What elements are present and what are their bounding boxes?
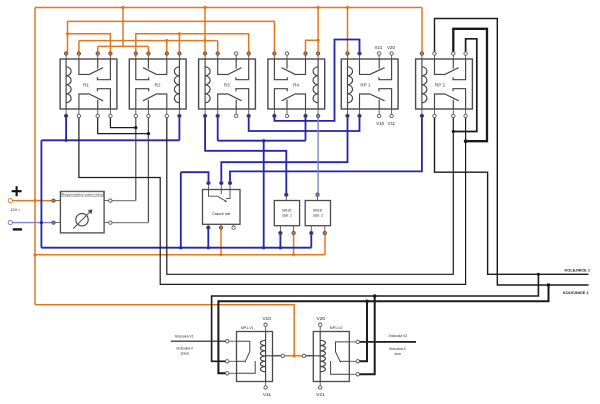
relay R2 top pin 2 — [147, 52, 150, 55]
relay RP 2 top pin 2 stem — [434, 54, 436, 60]
wire stem timer b2 — [220, 229, 222, 254]
relay RP 2 upper contact stem — [452, 59, 454, 69]
wire orange bus y254 — [35, 254, 325, 256]
wire RP2b2 to kolejnice1 — [435, 116, 589, 275]
wire orange left vertical — [34, 8, 36, 305]
MP1-V1 box — [237, 332, 273, 382]
relay RP 1 bottom pin 1 — [346, 114, 349, 117]
MP1-V1 V10 pin — [264, 323, 267, 326]
relay R1 lower contact arm — [89, 94, 104, 101]
relay R4 box — [268, 59, 325, 109]
timer bottom pin1 — [207, 226, 210, 229]
relay R3 bottom pin 3 — [235, 114, 238, 117]
MP1-V1 switch middle wire — [237, 360, 245, 362]
junction top rail x205 — [203, 6, 206, 9]
relay R2 top pin 1 stem — [135, 54, 137, 60]
relay RP 2 lower fixed contact — [453, 89, 466, 109]
junction R2b2 node — [147, 132, 150, 135]
relay R1 top pin 2 stem — [78, 54, 80, 60]
relay R4 coil — [313, 59, 318, 109]
relay R2 bottom pin 3 — [165, 114, 168, 117]
timer top pin1 — [207, 181, 210, 184]
wire R1b2 to RP2b4 long — [79, 116, 466, 285]
relay R4 bottom pin 3 stem — [305, 109, 307, 116]
svg-text:R4: R4 — [293, 83, 299, 88]
relay R1 coil — [66, 59, 71, 109]
relay R3 box — [199, 59, 256, 109]
relay R4 bottom pin 2 stem — [286, 109, 288, 116]
relay R3 top pin 3 stem — [235, 54, 237, 60]
MP1-V2 V21 pin — [319, 386, 322, 389]
relay R4 upper contact common — [296, 59, 306, 74]
svg-text:Srdcovka V1: Srdcovka V1 — [175, 335, 194, 339]
MP1-V2 right pin1 — [356, 340, 359, 343]
wire RP2t2 to kolejnice2 — [435, 19, 589, 286]
terminal -12V — [8, 221, 12, 225]
relay RP 1 upper contact common — [360, 59, 370, 74]
relay R3 upper fixed contact — [236, 59, 249, 80]
relay R3 bottom pin 4 stem — [248, 109, 250, 116]
junction y40 x167 — [165, 39, 168, 42]
relay R3 top pin 1 stem — [204, 54, 206, 60]
svg-text:V11: V11 — [263, 392, 272, 398]
relay RP 2 top pin 4 stem — [465, 54, 467, 60]
relay RP 1 top pin 1 — [346, 52, 349, 55]
pulse source left pin2 — [52, 221, 55, 224]
relay R2 lower contact stem — [147, 100, 149, 109]
svg-text:R1: R1 — [83, 83, 89, 88]
junction y40 x318 — [317, 39, 320, 42]
MP1-V1 switch common — [237, 341, 250, 352]
timer top pin2 — [220, 181, 223, 184]
BN1D 1 bottom stems — [280, 226, 293, 232]
relay R4 lower contact common — [296, 94, 306, 109]
relay R4 upper fixed contact — [274, 59, 287, 80]
terminal +12V — [8, 199, 12, 203]
relay R4 top pin 4 — [316, 52, 319, 55]
wire stem BN1D1 b1 — [279, 235, 281, 248]
junction R2b1 node — [134, 126, 137, 129]
svg-text:R2: R2 — [155, 83, 161, 88]
relay R2 top pin 4 — [178, 52, 181, 55]
MP1-V2 switch arm — [336, 352, 341, 363]
relay RP 1 lower fixed contact — [379, 89, 392, 109]
relay R2 top pin 1 — [134, 52, 137, 55]
relay R1 top pin 1 — [64, 52, 67, 55]
wire MP1-V2 tap stub — [306, 355, 314, 357]
BN1D 2 box — [305, 201, 330, 226]
wire R2b1 vertical — [135, 116, 137, 201]
relay RP 1 top pin 1 stem — [347, 54, 349, 60]
wire blue bus1 y140 — [41, 139, 179, 141]
relay R4 lower fixed contact — [274, 89, 287, 109]
junction timer t1 blue — [207, 182, 210, 185]
relay R1 upper contact arm — [89, 68, 104, 75]
relay RP 2 bottom pin 3 — [452, 114, 455, 117]
relay R3 top pin 2 — [216, 52, 219, 55]
relay RP 1 top pin 3 stem — [378, 54, 380, 60]
wire stem R1 b1 — [65, 116, 67, 141]
relay RP 1 upper contact arm — [369, 68, 385, 75]
wire branch R4 pin3 — [306, 40, 319, 53]
label plus — [12, 186, 22, 196]
junction y33 R2p4 — [178, 32, 181, 35]
svg-text:V21: V21 — [374, 45, 382, 50]
relay RP 2 upper contact common — [435, 59, 445, 74]
relay R3 upper contact common — [218, 59, 228, 74]
relay R1 top pin 3 — [96, 52, 99, 55]
wire stem BN1D2 b1 — [310, 235, 312, 248]
relay RP 2 bottom pin 1 — [420, 114, 423, 117]
relay R3 top pin 3 — [235, 52, 238, 55]
junction RP2b3 link — [452, 130, 455, 133]
MP1-V1 switch arm — [245, 352, 250, 363]
relay RP 2 lower contact arm — [444, 94, 459, 101]
svg-text:BN1D: BN1D — [313, 208, 323, 212]
timer bottom pin3 — [232, 226, 235, 229]
BN1D 2 top stem — [317, 196, 319, 200]
BN1D 1 top pin — [285, 193, 288, 196]
relay RP 1 bottom pin 4 — [390, 114, 393, 117]
relay R4 top pin 3 stem — [305, 54, 307, 60]
wire -12V to pulse source t2 — [12, 222, 54, 224]
svg-text:V10: V10 — [376, 121, 384, 126]
relay R3 bottom pin 1 stem — [204, 109, 206, 116]
relay R1 top pin 4 stem — [109, 54, 111, 60]
relay R4 top pin 2 — [285, 52, 288, 55]
relay R2 lower fixed contact — [136, 89, 149, 109]
relay R3 lower fixed contact — [236, 89, 249, 109]
wire orange top rail — [35, 7, 422, 9]
svg-text:KOLEJNICE 1: KOLEJNICE 1 — [564, 267, 590, 272]
relay R1 upper contact common — [79, 59, 89, 74]
wire orange rail2 y21 — [68, 21, 275, 53]
relay R2 upper contact stem — [147, 59, 149, 69]
junction RP2b4 thick — [464, 139, 468, 143]
svg-text:MP1-V1: MP1-V1 — [241, 326, 254, 330]
relay RP 2 coil — [422, 59, 427, 109]
relay R2 bottom pin 4 — [178, 114, 181, 117]
wire blue left vertical — [40, 140, 42, 247]
svg-text:Srdcovka X: Srdcovka X — [176, 347, 194, 351]
relay RP 2 bottom pin 4 stem — [465, 109, 467, 116]
junction top rail x348 — [346, 6, 349, 9]
wire drop to R3 pin1 — [204, 8, 206, 54]
MP1-V1 left pin1 — [226, 340, 229, 343]
relay R3 bottom pin 1 — [203, 114, 206, 117]
relay RP 2 top pin 2 — [433, 52, 436, 55]
junction blue bus1 R1b1 — [65, 139, 68, 142]
wire R3b4 to RP1b2 y131 — [249, 116, 360, 131]
MP1-V1 winding — [260, 332, 265, 382]
relay R1 bottom pin 2 stem — [78, 109, 80, 116]
MP1-V1 switch throw bracket — [237, 361, 256, 373]
wire stem BN1D2 b2 — [324, 235, 326, 255]
relay R1 top pin 1 stem — [65, 54, 67, 60]
wire y40 R1p2-R3p2 — [79, 40, 218, 42]
relay RP 2 bottom pin 3 stem — [452, 109, 454, 116]
relay R1 bottom pin 1 — [64, 114, 67, 117]
svg-text:V11: V11 — [388, 121, 396, 126]
MP1-V2 tap pin — [302, 354, 305, 357]
relay RP 1 lower contact arm — [369, 94, 385, 101]
MP1-V2 right stems — [349, 342, 356, 374]
junction k1line x374 — [373, 294, 377, 298]
relay R1 upper contact stem — [97, 59, 99, 69]
wire stem R1 pin2 — [78, 41, 80, 54]
wire bus2 y140 R3b2-R4b3 — [218, 140, 306, 142]
relay RP 1 lower contact stem — [378, 100, 380, 109]
wire drop to RP1 pin1 — [347, 8, 349, 54]
relay RP 2 top pin 3 — [452, 52, 455, 55]
junction bus BN1D1 b2 — [292, 253, 295, 256]
relay RP 1 upper fixed contact — [379, 59, 392, 80]
svg-text:levá: levá — [395, 352, 401, 356]
relay R4 bottom pin 3 — [304, 114, 307, 117]
svg-text:Srdcovka X: Srdcovka X — [389, 347, 407, 351]
relay RP 1 box — [341, 59, 398, 109]
relay R3 bottom pin 2 — [216, 114, 219, 117]
MP1-V1 left pin2 — [226, 360, 229, 363]
timer top pin3 — [228, 181, 231, 184]
wire RP2t3 thick link — [453, 29, 487, 141]
svg-text:V20: V20 — [317, 316, 326, 322]
relay R3 lower contact arm — [227, 94, 241, 101]
relay R1 box — [60, 59, 117, 109]
wire stem R3 b2 — [217, 116, 219, 141]
MP1-V1 tap pin — [281, 354, 284, 357]
MP1-V1 V11 pin — [264, 386, 267, 389]
relay R1 lower fixed contact — [97, 89, 110, 109]
wire stem BN1D1 b2 — [293, 235, 295, 255]
svg-text:Regulovatelný pulsní zdroj: Regulovatelný pulsní zdroj — [62, 193, 103, 197]
wire stem R3 pin2 — [217, 41, 219, 54]
relay RP 1 coil — [348, 59, 353, 109]
relay R4 bottom pin 1 — [273, 114, 276, 117]
relay R3 top pin 1 — [203, 52, 206, 55]
wire split y46 R1p3-R2p2 — [98, 45, 149, 47]
relay RP 1 bottom pin 2 stem — [359, 109, 361, 116]
timer switch throw — [226, 190, 230, 199]
relay R1 bottom pin 2 — [77, 114, 80, 117]
wire R1b4 to R2b1 node — [110, 116, 135, 128]
relay R4 top pin 3 — [304, 52, 307, 55]
relay R4 bottom pin 1 stem — [273, 109, 275, 116]
BN1D 2 bottom pin1 — [310, 231, 313, 234]
wire rail3 y33 R2p1-R3p4 — [136, 34, 249, 54]
svg-text:zást. 2: zást. 2 — [313, 213, 323, 217]
relay R2 bottom pin 4 stem — [178, 109, 180, 116]
relay RP 1 top pin 4 stem — [391, 54, 393, 60]
wire R4b4 to BN1D2 top — [317, 116, 319, 193]
relay R2 box — [129, 59, 186, 109]
relay R3 bottom pin 3 stem — [235, 109, 237, 116]
MP1-V2 switch middle wire — [341, 360, 350, 362]
relay RP 2 bottom pin 4 — [464, 114, 467, 117]
MP1-V2 V21 stem — [319, 382, 321, 386]
MP1-V1 V10 stem — [265, 326, 267, 331]
wire pulse t2 link — [110, 222, 148, 224]
relay R3 top pin 4 — [247, 52, 250, 55]
BN1D 1 bottom pin1 — [279, 231, 282, 234]
relay R2 bottom pin 2 stem — [147, 109, 149, 116]
junction orange at +12V — [33, 199, 36, 202]
wire R1b3 to R2b2 node — [98, 116, 149, 134]
relay R4 top pin 1 stem — [273, 54, 275, 60]
relay R2 upper contact common — [157, 59, 167, 74]
relay R4 bottom pin 4 stem — [317, 109, 319, 116]
BN1D 1 top stem — [285, 196, 287, 200]
relay R1 bottom pin 3 stem — [97, 109, 99, 116]
wire stem R4 b3 — [305, 116, 307, 141]
relay R4 top pin 1 — [273, 52, 276, 55]
relay R2 bottom pin 1 — [134, 114, 137, 117]
svg-text:Srdcovka V2: Srdcovka V2 — [389, 334, 408, 338]
relay RP 1 bottom pin 3 stem — [378, 109, 380, 116]
wire stem R2 pin4 — [178, 34, 180, 54]
timer switch arm — [217, 196, 225, 201]
junction blue bus2 drop — [262, 139, 265, 142]
relay RP 2 top pin 1 — [420, 52, 423, 55]
wire stem timer b1 — [207, 229, 209, 247]
wire kolejnice2 branch — [218, 285, 548, 373]
junction y40 x205 — [203, 39, 206, 42]
pulse source left pin1 — [52, 199, 55, 202]
junction bus3 BN1D1 b1 — [279, 246, 282, 249]
timer bottom pin2 — [219, 226, 222, 229]
relay RP 1 bottom pin 1 stem — [347, 109, 349, 116]
wire drop to RP2 pin1 — [421, 8, 423, 54]
relay R1 bottom pin 4 stem — [109, 109, 111, 116]
timer relay box — [203, 190, 241, 225]
MP1-V2 box — [313, 332, 349, 382]
svg-text:KOLEJNICE 2: KOLEJNICE 2 — [563, 290, 589, 295]
relay R4 top pin 2 stem — [286, 54, 288, 60]
wire timer t3 to RP2 b1 — [230, 116, 422, 182]
BN1D 1 bottom pin2 — [292, 231, 295, 234]
relay RP 1 bottom pin 3 — [378, 114, 381, 117]
relay RP 2 top pin 4 — [464, 52, 467, 55]
svg-text:Časové relé: Časové relé — [212, 211, 230, 216]
wire drop to R4 pin4 — [317, 8, 319, 54]
relay R1 lower contact stem — [97, 100, 99, 109]
wire srdcovka V1 — [171, 340, 226, 342]
relay R1 lower contact common — [79, 94, 89, 109]
MP1-V2 right pin2 — [356, 360, 359, 363]
svg-text:pravá: pravá — [181, 352, 189, 356]
relay R3 bottom pin 2 stem — [217, 109, 219, 116]
wire drop bus2 to bus3 — [263, 141, 265, 248]
svg-text:V20: V20 — [387, 45, 395, 50]
relay R3 top pin 2 stem — [217, 54, 219, 60]
pulse source box — [60, 191, 104, 233]
symbol minus — [13, 228, 22, 230]
timer switch arrowhead — [224, 200, 227, 203]
relay R2 top pin 2 stem — [147, 54, 149, 60]
relay R3 upper contact stem — [235, 59, 237, 69]
relay RP 2 bottom pin 1 stem — [421, 109, 423, 116]
svg-text:V21: V21 — [316, 392, 325, 398]
wire R2b3 to RP2b3 long — [167, 116, 454, 275]
wire drop node x123 — [122, 8, 124, 47]
relay R2 upper fixed contact — [136, 59, 149, 80]
relay RP 1 lower contact common — [360, 94, 370, 109]
pulse source symbol circle — [76, 214, 88, 226]
relay R2 coil — [174, 59, 179, 109]
relay R1 top pin 2 — [77, 52, 80, 55]
MP1-V1 left pin3 — [226, 372, 229, 375]
pulse source right pin2 — [109, 221, 112, 224]
relay R2 top pin 3 — [165, 52, 168, 55]
relay R1 top pin 3 stem — [97, 54, 99, 60]
pulse source left stubs — [55, 201, 108, 223]
junction k2line x367 — [365, 300, 369, 304]
wire k2line to MP1-V2 middle — [359, 301, 367, 361]
relay RP 2 box — [416, 59, 473, 109]
MP1-V2 tap wire — [313, 355, 320, 357]
wire R4b1 to RP1 pin2 — [274, 40, 359, 121]
BN1D 1 box — [274, 201, 299, 226]
junction top rail x123 — [121, 6, 124, 9]
wire R1 p1-p4 join — [68, 34, 111, 54]
junction orange bus start — [33, 253, 36, 256]
wire +12V to pulse source t1 — [12, 200, 54, 202]
wire orange feed to frog taps — [35, 305, 294, 356]
relay R3 upper contact arm — [227, 68, 241, 75]
wire MP1-V1 tap stub — [273, 355, 282, 357]
wire stem R2 pin2 — [147, 46, 149, 53]
junction y33 R1 join — [66, 32, 69, 35]
relay R4 bottom pin 4 — [316, 114, 319, 117]
relay R2 bottom pin 3 stem — [166, 109, 168, 116]
pulse source right pin1 — [109, 199, 112, 202]
relay RP 1 upper contact stem — [378, 59, 380, 69]
timer bottom stems — [208, 224, 233, 226]
junction bus3 timer b1 — [207, 246, 210, 249]
junction top rail x318 — [317, 6, 320, 9]
wire kolejnice1 branch — [212, 274, 539, 361]
svg-text:RP 2: RP 2 — [435, 83, 446, 88]
relay R3 coil — [205, 59, 210, 109]
MP1-V2 V20 pin — [319, 323, 322, 326]
relay RP 2 top pin 1 stem — [421, 54, 423, 60]
junction bus3 x263 — [262, 246, 265, 249]
svg-text:V10: V10 — [262, 316, 271, 322]
svg-text:RP 1: RP 1 — [360, 83, 371, 88]
BN1D 2 top pin — [316, 193, 319, 196]
relay RP 1 bottom pin 2 — [358, 114, 361, 117]
relay R1 bottom pin 4 — [109, 114, 112, 117]
junction blue minus — [40, 221, 43, 224]
MP1-V2 right pin3 — [356, 373, 359, 376]
relay R1 upper fixed contact — [97, 59, 110, 80]
relay RP 2 bottom pin 2 stem — [434, 109, 436, 116]
MP1-V1 tap wire — [266, 355, 273, 357]
wire k1line to MP1-V2 bottom — [359, 296, 374, 374]
relay R2 upper contact arm — [143, 68, 157, 75]
relay RP 1 top pin 2 — [358, 52, 361, 55]
MP1-V2 switch throw bracket — [331, 361, 350, 374]
wire timer t2 to RP1 b1 — [221, 116, 347, 182]
relay RP 2 upper fixed contact — [453, 59, 466, 80]
svg-text:MP1-V2: MP1-V2 — [330, 326, 343, 330]
timer switch stem t2 — [220, 190, 222, 195]
timer switch common — [209, 190, 218, 197]
svg-text:12V =: 12V = — [11, 208, 21, 212]
relay RP 1 top pin 4 — [390, 52, 393, 55]
relay R2 lower contact common — [157, 94, 167, 109]
relay RP 1 top pin 2 stem — [359, 54, 361, 60]
